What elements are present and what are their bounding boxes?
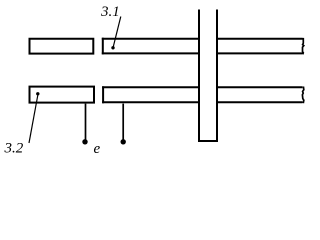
svg-text:3.1: 3.1 xyxy=(100,4,120,20)
svg-text:e: e xyxy=(94,141,101,157)
svg-text:3.2: 3.2 xyxy=(4,140,24,156)
